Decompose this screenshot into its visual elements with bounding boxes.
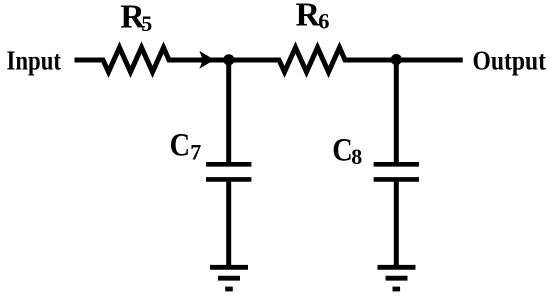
- svg-text:8: 8: [351, 144, 362, 169]
- svg-text:Input: Input: [7, 44, 62, 75]
- svg-text:R: R: [296, 0, 321, 34]
- svg-text:C: C: [332, 132, 353, 168]
- svg-text:5: 5: [141, 11, 152, 36]
- svg-text:Output: Output: [473, 44, 547, 75]
- svg-text:6: 6: [318, 9, 329, 34]
- svg-text:C: C: [170, 128, 191, 164]
- svg-text:7: 7: [190, 140, 201, 165]
